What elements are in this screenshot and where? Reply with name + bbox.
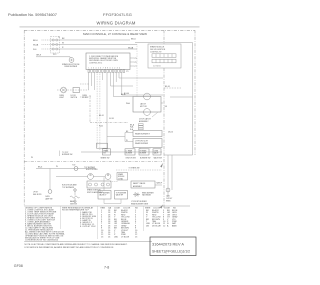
- svg-text:W-42: W-42: [99, 126, 103, 128]
- svg-text:P12: P12: [53, 54, 56, 56]
- lower wire: [36, 168, 96, 170]
- legend col separators: [60, 206, 62, 229]
- wire L1: [42, 39, 51, 41]
- svg-text:BURNER: BURNER: [126, 153, 133, 155]
- spark switch box: [87, 181, 111, 188]
- safety valve wire: [155, 184, 162, 186]
- ignitor squiggle: [70, 196, 80, 198]
- stub dash A: [80, 83, 89, 85]
- wire drop to valves: [49, 169, 51, 190]
- console divider vertical (dash-dot): [89, 95, 91, 123]
- svg-text:1 2 3 4 5 6 7 8 9 0 1 2 3 4: 1 2 3 4 5 6 7 8 9 0 1 2 3 4: [89, 68, 121, 70]
- svg-text:W: W: [62, 43, 64, 45]
- svg-text:DK BLUE: DK BLUE: [152, 225, 161, 227]
- svg-text:OVEN: OVEN: [45, 196, 50, 198]
- svg-text:A: A: [167, 224, 169, 227]
- ground arrow: [74, 198, 77, 203]
- svg-text:BK-6: BK-6: [38, 166, 42, 168]
- lamp circuit wire (dashed): [57, 89, 89, 91]
- spark module dashes: [110, 181, 118, 183]
- svg-text:8. OUTLET 120V: 8. OUTLET 120V: [80, 226, 96, 228]
- legend column 2: [62, 207, 97, 228]
- latch motor bottom cam: [144, 109, 151, 116]
- ribbon wire 6: [102, 73, 104, 81]
- svg-text:BURNER SW: BURNER SW: [62, 154, 73, 156]
- connector P12 pin 1: [52, 39, 54, 41]
- diode symbol: [133, 193, 140, 197]
- connector P12 pin 3: [52, 48, 54, 50]
- ribbon wire 10: [115, 73, 117, 83]
- burner box drop stubs: [140, 148, 150, 149]
- svg-text:BK-41: BK-41: [99, 115, 104, 117]
- wire GR: [36, 57, 70, 58]
- ribbon wire 11: [119, 73, 163, 79]
- right branch wires: [168, 155, 172, 197]
- oven ignitor symbol: [69, 58, 74, 63]
- junction box C: [139, 149, 149, 155]
- callout leader: [152, 113, 158, 118]
- svg-text:13: 13: [135, 236, 138, 238]
- svg-text:LT REAR: LT REAR: [126, 150, 133, 153]
- svg-text:REAR BURNER R: REAR BURNER R: [135, 133, 151, 136]
- svg-text:NAT/LP: NAT/LP: [157, 182, 162, 185]
- svg-text:P3: P3: [135, 58, 137, 60]
- svg-text:120V: 120V: [166, 196, 171, 198]
- svg-text:W: W: [56, 166, 58, 168]
- valve drop stub: [103, 177, 105, 190]
- svg-text:12: 12: [163, 225, 166, 227]
- latch motor top cam: [144, 93, 151, 100]
- svg-text:CONVERSION KIT NO 5303918254: CONVERSION KIT NO 5303918254: [25, 239, 59, 241]
- safety valve box: [131, 181, 155, 188]
- electrode feed wire: [56, 176, 88, 178]
- svg-text:1 2 3 4 5 6: 1 2 3 4 5 6: [153, 66, 161, 68]
- stub dash B: [80, 96, 92, 98]
- svg-text:REAR BURNER: REAR BURNER: [135, 142, 149, 145]
- connector J2 pin 3: [139, 128, 144, 130]
- panel border outer right (dash-dot): [194, 30, 196, 155]
- legend column 1: [25, 208, 66, 242]
- oven control board U1: [86, 53, 130, 70]
- svg-text:W-6A: W-6A: [33, 44, 39, 47]
- door switch: [73, 88, 80, 93]
- junction box B: [125, 149, 135, 155]
- ignitor electrode node: [74, 189, 76, 196]
- panel border right (dash-dot): [163, 30, 165, 208]
- bottom bus wire: [81, 151, 162, 153]
- svg-text:SAFETY VALVE: SAFETY VALVE: [133, 182, 146, 185]
- ribbon wire 12: [122, 73, 163, 96]
- svg-text:16: 16: [108, 236, 111, 238]
- ribbon wire 9: [113, 73, 133, 97]
- svg-text:DB: DB: [146, 225, 149, 227]
- panel border top (dash-dot): [24, 29, 195, 31]
- svg-text:IGNITOR SW: IGNITOR SW: [126, 158, 137, 160]
- svg-text:W-A: W-A: [126, 102, 130, 105]
- oven lamp: [61, 87, 67, 93]
- svg-text:TO SPARK SW: TO SPARK SW: [129, 167, 140, 170]
- ribbon wire 3: [93, 73, 95, 91]
- svg-text:BK-6: BK-6: [131, 38, 136, 40]
- ribbon wire 7 (long solid): [106, 73, 108, 153]
- svg-text:DR SW: DR SW: [82, 97, 88, 99]
- svg-text:TOP BURNER: TOP BURNER: [116, 192, 127, 194]
- svg-text:BK: BK: [165, 106, 168, 108]
- svg-text:OUTLET: OUTLET: [166, 198, 172, 200]
- wire N: [42, 44, 51, 46]
- svg-text:DB-16: DB-16: [168, 131, 173, 133]
- electrode B: [105, 174, 111, 180]
- wire R: [42, 48, 51, 50]
- svg-text:ASSEMBLY: ASSEMBLY: [133, 185, 143, 188]
- wire right dash: [164, 87, 181, 89]
- svg-text:ASSEMBLY: ASSEMBLY: [139, 120, 149, 123]
- svg-text:CONTROL P2: CONTROL P2: [150, 51, 161, 53]
- svg-text:BURNER: BURNER: [140, 153, 147, 155]
- svg-text:BK-34: BK-34: [165, 86, 170, 88]
- svg-text:ELECTRODES: ELECTRODES: [86, 169, 98, 171]
- svg-text:P7: P7: [135, 66, 137, 68]
- latch motor box: [133, 97, 161, 113]
- ribbon wire 8: [111, 73, 133, 87]
- border arrow upper: [160, 163, 163, 168]
- svg-text:IGNITOR: IGNITOR: [70, 204, 78, 206]
- svg-text:GF08: GF08: [14, 264, 23, 268]
- electrode A: [88, 174, 94, 180]
- spark module U2: [148, 44, 181, 68]
- svg-text:BURNER SW: BURNER SW: [140, 158, 151, 160]
- svg-text:MAIN CONSOLE, LT CONSOLE & REA: MAIN CONSOLE, LT CONSOLE & REAR VIEW: [83, 32, 147, 36]
- svg-text:TOP BURNER: TOP BURNER: [99, 192, 110, 194]
- svg-text:LT BLUE: LT BLUE: [121, 236, 130, 238]
- console divider horizontal (dash-dot): [90, 122, 128, 124]
- ribbon wire 2: [91, 73, 93, 87]
- svg-text:SHEET1(FFGELLE)1/1/2: SHEET1(FFGELLE)1/1/2: [152, 250, 190, 254]
- svg-text:NOTE: ELECTRICAL COMPONENTS AN: NOTE: ELECTRICAL COMPONENTS AND WIRING A…: [25, 243, 128, 246]
- svg-text:REAR BURNER: REAR BURNER: [142, 191, 154, 194]
- svg-text:LATCH: LATCH: [140, 102, 146, 105]
- svg-text:13: 13: [101, 236, 104, 238]
- burner box feed wires: [125, 133, 133, 142]
- drop terminal lamp: [48, 190, 52, 194]
- valve row box 1: [98, 191, 111, 200]
- svg-text:SW: SW: [103, 153, 106, 155]
- svg-text:SPARK: SPARK: [103, 150, 108, 153]
- svg-text:Publication No. 5995474607: Publication No. 5995474607: [8, 12, 57, 17]
- thermal switch: [74, 167, 78, 171]
- electrode link wire: [93, 176, 105, 178]
- svg-text:BK-6: BK-6: [33, 40, 38, 42]
- connector J2 pin 2: [139, 126, 144, 128]
- svg-text:VALVE SW: VALVE SW: [154, 157, 163, 160]
- module connector strip A: [152, 54, 176, 58]
- ribbon wire 1: [88, 73, 90, 91]
- right cluster lamp: [166, 188, 170, 192]
- svg-text:W: W: [31, 157, 33, 159]
- legend table top rule: [24, 205, 190, 207]
- ribbon wire 4 (long left): [96, 73, 98, 148]
- legend bottom rule: [24, 241, 152, 243]
- header rule: [20, 26, 200, 28]
- svg-text:TOP BURNERS: TOP BURNERS: [62, 187, 75, 189]
- title block frame: [150, 237, 196, 256]
- svg-text:FOR SERVICE INFORMATION, ALWAY: FOR SERVICE INFORMATION, ALWAYS REFER PA…: [25, 246, 115, 249]
- panel border left lower (dash-dot): [23, 30, 25, 206]
- svg-text:REAR BURNER VIEW: REAR BURNER VIEW: [131, 202, 148, 205]
- svg-text:SWITCH: SWITCH: [71, 97, 78, 99]
- border arrow lower: [160, 205, 163, 209]
- panel divider (dash-dot): [24, 161, 162, 163]
- svg-text:RT REAR: RT REAR: [140, 150, 147, 153]
- svg-text:SPARK SW: SPARK SW: [101, 157, 110, 160]
- connector J2 pin 1: [139, 124, 144, 126]
- spark switch contacts: [89, 183, 92, 186]
- spark module small block: [117, 173, 128, 181]
- svg-text:AMB: AMB: [172, 224, 177, 227]
- svg-text:FFGF3047LSG: FFGF3047LSG: [103, 12, 132, 17]
- rear burner box B: [133, 139, 162, 148]
- valve row box 2: [115, 191, 128, 200]
- module connector strip B: [152, 59, 176, 63]
- wire right mid: [170, 96, 193, 98]
- legend color code column: [145, 208, 178, 228]
- svg-text:P5: P5: [135, 62, 137, 64]
- splice box: [97, 143, 108, 148]
- rear burner box A: [133, 131, 162, 137]
- svg-text:R-6: R-6: [33, 49, 37, 51]
- svg-text:P1: P1: [126, 71, 128, 73]
- connector P12 pin 2: [52, 43, 54, 45]
- svg-text:OVEN BURNER: OVEN BURNER: [64, 66, 78, 68]
- wire main right run: [135, 43, 193, 156]
- oven control side pins: [130, 58, 134, 66]
- svg-text:GR-8: GR-8: [36, 54, 42, 56]
- svg-text:316442073 REV A: 316442073 REV A: [152, 242, 184, 247]
- spark module feed: [116, 169, 162, 171]
- legend wire chart: [100, 207, 138, 239]
- junction box D: [153, 149, 161, 155]
- valve drop stubs: [104, 199, 121, 204]
- junction box A: [103, 149, 111, 155]
- svg-text:CONTROL EOC: CONTROL EOC: [89, 62, 103, 64]
- svg-text:LIGHT: LIGHT: [59, 97, 64, 99]
- svg-text:LBU: LBU: [114, 236, 119, 238]
- svg-text:SEE NOTE: SEE NOTE: [33, 194, 42, 196]
- node drop to spark module (dotted): [136, 45, 138, 97]
- svg-text:BK-A: BK-A: [121, 93, 126, 96]
- oven control pin row: [88, 70, 125, 73]
- svg-text:GY-43: GY-43: [109, 118, 114, 120]
- svg-text:BK: BK: [62, 38, 65, 40]
- ribbon wire 5 (long left 2): [99, 73, 101, 151]
- svg-text:MOTOR: MOTOR: [140, 106, 147, 108]
- latch motor right stub: [161, 102, 163, 104]
- svg-text:OVEN: OVEN: [154, 151, 158, 153]
- connector P12 outline: [51, 37, 60, 54]
- svg-text:7-8: 7-8: [104, 265, 109, 269]
- svg-text:MODULE: MODULE: [118, 176, 124, 178]
- svg-text:WIRING DIAGRAM: WIRING DIAGRAM: [96, 21, 135, 26]
- svg-text:SPARK: SPARK: [118, 173, 123, 176]
- svg-text:W-6A: W-6A: [128, 46, 134, 49]
